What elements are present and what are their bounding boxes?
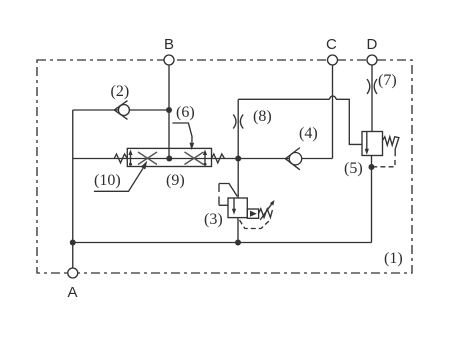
- junction node on B line at check-valve branch: [166, 107, 172, 113]
- check valve (2): [114, 101, 129, 120]
- svg-text:(5): (5): [344, 160, 363, 177]
- relief valve (3) pilot-stage small box with triangle: [247, 209, 258, 218]
- wire C port down to check-valve (4) line: [332, 65, 334, 159]
- valve (9) left spring: [114, 154, 127, 163]
- svg-text:A: A: [68, 284, 78, 301]
- wire relief valve (5) output down: [371, 156, 373, 243]
- valve (9) arrow tail blobs: [129, 163, 132, 166]
- junction node bottom left: [70, 240, 76, 246]
- svg-text:(9): (9): [166, 172, 185, 189]
- junction node valve (9) center: [166, 156, 172, 162]
- svg-text:B: B: [164, 36, 174, 53]
- orifice (8): [233, 115, 243, 129]
- relief valve (5) body: [362, 132, 383, 156]
- svg-text:D: D: [367, 36, 378, 53]
- junction node relief (5) pilot tap: [369, 164, 375, 170]
- check valve (4): [285, 148, 301, 170]
- relief valve (3) internal arrow: [232, 198, 236, 215]
- wire relief valve (3) output down: [237, 218, 239, 243]
- relief valve (3) pilot hook: [219, 184, 237, 206]
- svg-text:C: C: [326, 36, 337, 53]
- svg-text:(8): (8): [253, 108, 272, 125]
- wire left vertical from check-valve line down to port A: [72, 110, 74, 269]
- wire D port down to relief valve (5): [371, 65, 373, 132]
- port B circle: [164, 55, 174, 65]
- svg-text:(7): (7): [378, 72, 397, 89]
- valve (9) right spring: [212, 154, 225, 163]
- valve (9) right internal arrow: [203, 150, 207, 166]
- wire valve (9) main horizontal line: [73, 158, 333, 160]
- wire orifice (8) vertical: node to relief valve (3): [237, 99, 239, 198]
- relief valve (5) pilot dashed line: [375, 160, 396, 167]
- port C circle: [328, 55, 338, 65]
- port A circle: [68, 268, 78, 278]
- svg-text:(1): (1): [384, 250, 403, 267]
- junction node orifice (8) branch: [235, 156, 241, 162]
- svg-text:(3): (3): [204, 211, 223, 228]
- svg-text:(4): (4): [299, 125, 318, 142]
- wire bottom horizontal return line: [73, 242, 372, 244]
- relief valve (5) internal arrow: [365, 132, 369, 155]
- relief valve (3) body: [228, 198, 247, 218]
- wire check-valve (2) branch: left vertical to B line: [73, 109, 169, 111]
- junction node relief (3) output on bottom line: [235, 240, 241, 246]
- relief valve (5) spring: [383, 137, 399, 157]
- valve (9) body box: [127, 148, 211, 166]
- relief valve (3) dashed vent line: [240, 220, 271, 229]
- relief valve (3) adjustable spring: [259, 200, 275, 220]
- svg-text:(10): (10): [94, 172, 121, 189]
- orifice (7) on D line: [367, 79, 377, 94]
- valve (9) left internal arrow: [128, 150, 132, 166]
- leader arrow for label (10): [94, 161, 147, 192]
- svg-text:(2): (2): [111, 83, 130, 100]
- wire B port down to valve (9) center: [168, 65, 170, 159]
- enclosure (1) dash-dot boundary: [37, 60, 412, 273]
- port D circle: [367, 55, 377, 65]
- variable orifice right (6) X symbol: [185, 152, 204, 165]
- wire top horizontal with hop over C line: [238, 98, 329, 100]
- svg-text:(6): (6): [176, 104, 195, 121]
- leader arrow for label (6): [172, 123, 194, 150]
- variable orifice left (10) X symbol: [138, 152, 157, 165]
